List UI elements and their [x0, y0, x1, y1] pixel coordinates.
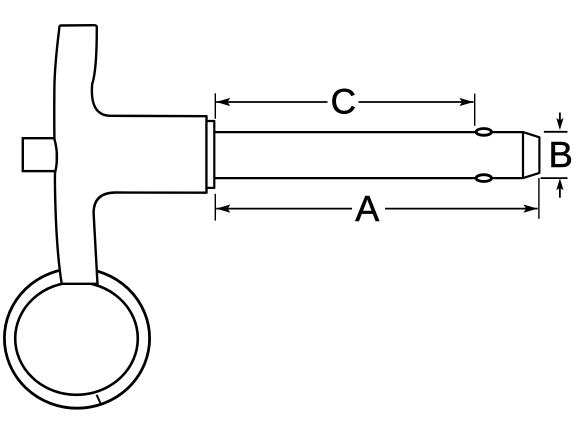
ring outer [4, 268, 149, 408]
ring split [97, 395, 102, 406]
ball detent bottom [476, 175, 491, 182]
svg-text:C: C [331, 83, 356, 122]
dimension C extension line right [474, 94, 476, 126]
dimension A arrow left [216, 205, 230, 213]
dimension B leader bottom [541, 177, 568, 179]
pin tip edge [522, 132, 524, 178]
dimension C extension line left [214, 93, 216, 119]
dimension A extension line left [214, 194, 216, 221]
collar [207, 121, 215, 188]
dimension C arrow left [216, 98, 230, 106]
svg-text:A: A [355, 188, 379, 229]
dimension A line right segment [385, 208, 538, 210]
dimension A extension line right [538, 178, 540, 219]
dimension A arrow right [523, 205, 537, 213]
ring inner [15, 282, 138, 395]
button [23, 138, 57, 171]
dimension B arrow bottom [559, 186, 561, 198]
svg-text:B: B [549, 134, 573, 175]
dimension B leader top [544, 131, 568, 133]
ball detent top [476, 129, 491, 136]
dimension C line left segment [216, 101, 327, 103]
dimension A line left segment [216, 208, 352, 210]
pin shaft [215, 132, 540, 178]
handle [54, 25, 206, 284]
dimension B arrow top [559, 113, 561, 125]
dimension C line right segment [359, 101, 474, 103]
dimension C arrow right [459, 98, 473, 106]
